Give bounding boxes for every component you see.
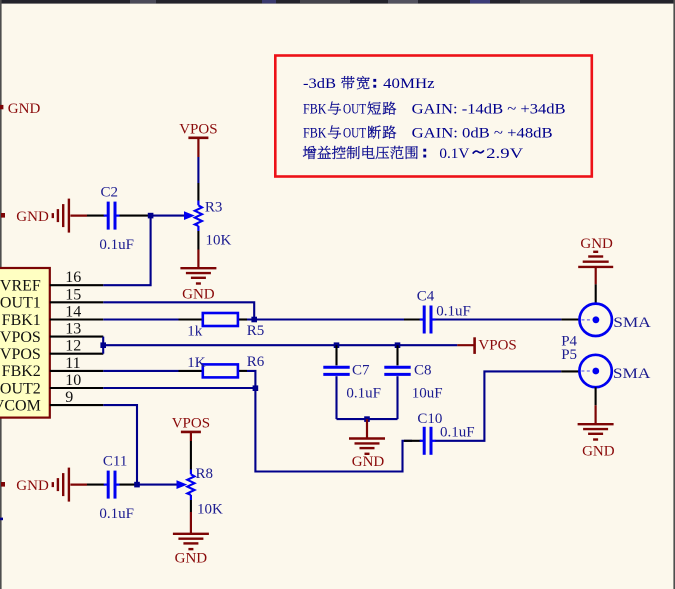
wire OUT1 pin 15 to R5 output [103,302,254,319]
junction OUT1/FBK1 node [251,317,257,323]
svg-text:OUT2: OUT2 [0,380,41,397]
svg-text:C4: C4 [417,288,435,304]
svg-text:16: 16 [65,269,81,286]
svg-text:12: 12 [65,338,81,355]
wire C7 lower [335,376,337,419]
GND power port (C2 left) [52,213,54,218]
IC chip U1 (partial) [0,268,50,418]
wire C8 upper [396,345,398,365]
svg-text:VPOS: VPOS [179,121,217,137]
capacitor C7 [323,366,349,369]
svg-text:VPOS: VPOS [0,346,41,363]
svg-text:P5: P5 [561,347,577,363]
svg-text:9: 9 [65,389,73,406]
resistor R6 [203,364,238,377]
svg-text:C7: C7 [352,363,370,379]
svg-text:C10: C10 [417,411,442,427]
svg-text:40MHz: 40MHz [383,76,435,92]
svg-text:GND: GND [175,551,208,567]
svg-text:FBK: FBK [303,102,327,118]
svg-text:10uF: 10uF [412,386,443,402]
capacitor C8 [384,366,410,369]
svg-text:SMA: SMA [613,315,651,331]
wire to GND (C7/C8) [366,419,368,438]
capacitor C2 [107,202,110,230]
ground GND (C7/C8) [349,437,385,439]
wire R8 to GND [190,495,192,500]
wire node to R8 wiper [137,484,177,486]
svg-text:1k: 1k [187,324,203,340]
svg-text:R5: R5 [247,323,265,339]
pin 9 (VCOM) [50,404,104,406]
capacitor C4 [423,306,426,334]
wire C4 to SMA P4 [435,318,562,320]
wire GND to P4 [595,284,597,303]
svg-text:10K: 10K [206,232,232,248]
junction pins 13-12 VPOS [100,342,106,348]
svg-text:OUT: OUT [343,126,366,142]
resistor R5 [203,313,238,326]
ground GND (R8) [173,533,209,535]
wire C2 to node [120,215,151,217]
resistor R6 leads [179,370,203,372]
svg-text:VPOS: VPOS [478,337,516,353]
svg-text:GND: GND [8,101,41,117]
svg-text:15: 15 [65,286,81,303]
junction C8 on VPOS rail [395,342,401,348]
wire C8 lower [396,376,398,419]
wire node to R3 wiper [151,215,185,217]
svg-text:GND: GND [582,443,615,459]
potentiometer R8 [187,474,194,495]
svg-text:13: 13 [65,321,81,338]
svg-text:FBK2: FBK2 [2,363,41,380]
junction COM node [134,482,140,488]
wire GND to C11 [87,484,105,486]
svg-text:GAIN: -14dB ~ +34dB: GAIN: -14dB ~ +34dB [412,102,566,118]
wire FBK1 pin 14 to R5 [103,318,178,320]
potentiometer R3 [195,205,202,226]
wire node to C4 [404,318,421,320]
wire VPOS pins 13-12 [102,337,104,354]
svg-text:OUT1: OUT1 [0,295,41,312]
pin 10 (OUT2) [50,387,104,389]
svg-text:10K: 10K [197,502,223,518]
junction C7 on VPOS rail [334,342,340,348]
wire R3 to GND [197,226,199,231]
wire GND to C2 [87,215,105,217]
svg-text:GND: GND [182,286,215,302]
wire VPOS to R8 [190,441,192,470]
annotation box [275,56,592,177]
wire C10 to SMA P5 [435,371,561,440]
svg-text:1K: 1K [187,355,206,371]
svg-text:0.1uF: 0.1uF [440,425,475,441]
wire P5 to GND [595,387,597,405]
wire FBK2 pin 11 to R6 [103,370,178,372]
svg-text:VPOS: VPOS [0,329,41,346]
wire C7 upper [335,345,337,365]
junction OUT2 / R6 node [253,385,259,391]
wire COM pin 9 down to C11 node [103,405,137,485]
ground GND (P5 bottom) [578,423,614,425]
svg-text:10: 10 [65,372,81,389]
wire OUT2 pin 10 [103,387,255,389]
junction ground link [364,416,370,422]
wire stub (left edge) [0,518,3,521]
wire R6 to OUT2 node [247,371,255,388]
svg-text:VPOS: VPOS [172,415,210,431]
svg-text:GND: GND [580,236,613,252]
svg-text:VCOM: VCOM [0,397,41,414]
pin 12 (VPOS) [50,353,104,355]
svg-text:C2: C2 [101,184,119,200]
pin 16 (VREF) [50,284,104,286]
wire R5 to node P4 [247,318,412,320]
junction VREF node [148,213,154,219]
annotation line 4: gain control voltage range [303,146,317,159]
capacitor C10 [423,427,426,455]
svg-text:14: 14 [65,304,81,321]
pin 11 (FBK2) [50,370,104,372]
pin 14 (FBK1) [50,318,104,320]
pin 13 (VPOS) [50,336,104,338]
wire VPOS rail [103,344,457,346]
GND power port (C11 left) [52,482,54,487]
svg-text:GND: GND [352,454,385,470]
svg-text:GAIN: 0dB ~ +48dB: GAIN: 0dB ~ +48dB [412,126,553,142]
svg-text:C11: C11 [103,454,127,470]
svg-text:OUT: OUT [343,102,366,118]
wire VREF node to pin 16 [103,216,150,286]
svg-text:R6: R6 [247,354,265,370]
svg-text:2.9V: 2.9V [486,146,523,162]
svg-text:11: 11 [65,355,80,372]
svg-text:GND: GND [16,209,49,225]
svg-text:0.1uF: 0.1uF [436,303,471,319]
pin 15 (OUT1) [50,301,104,303]
svg-text:R8: R8 [196,466,214,482]
svg-text:0.1V: 0.1V [439,146,469,162]
svg-text:C8: C8 [414,363,432,379]
svg-text:R3: R3 [205,199,223,215]
svg-text:-3dB: -3dB [303,76,336,92]
svg-text:0.1uF: 0.1uF [346,386,381,402]
svg-text:VREF: VREF [0,278,41,295]
svg-text:0.1uF: 0.1uF [99,506,134,522]
wire C7-C8 ground link [337,418,398,420]
ground GND (R3) [180,267,216,269]
svg-text:FBK1: FBK1 [2,312,41,329]
svg-text:SMA: SMA [613,366,651,382]
resistor R5 leads [179,318,203,320]
power port VPOS (rail) [457,344,473,346]
svg-text:GND: GND [16,478,49,494]
connector SMA P5 [579,355,611,387]
svg-text:0.1uF: 0.1uF [99,237,134,253]
capacitor C11 [107,471,110,499]
wire VPOS to R3 [197,157,199,183]
svg-text:FBK: FBK [303,126,327,142]
GND power port (top left edge) [0,105,3,109]
wire OUT2 node down to C10 [255,388,412,471]
wire C11 to node [120,484,138,486]
connector SMA P4 [580,304,612,336]
